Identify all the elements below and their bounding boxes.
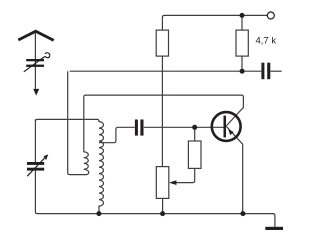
svg-text:4,7 k: 4,7 k: [256, 36, 277, 47]
